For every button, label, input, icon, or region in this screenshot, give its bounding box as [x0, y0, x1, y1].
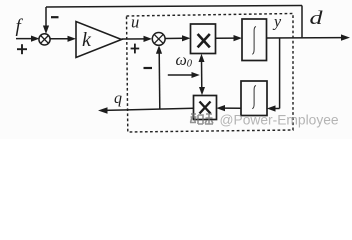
- dashed boundary box: [127, 14, 294, 133]
- svg-text:u: u: [131, 13, 139, 32]
- wire: S1 to gain triangle: [50, 36, 76, 42]
- svg-text:k: k: [82, 29, 92, 51]
- wire: I2 to multiplier M2: [216, 105, 241, 111]
- svg-text:d: d: [310, 8, 324, 29]
- feedback wire: node y up and across to S1: [43, 6, 302, 38]
- feedback wire: q line up to S2: [156, 45, 162, 108]
- summing junction S1: [39, 34, 50, 45]
- wire: node y down to integrator I2: [267, 38, 280, 112]
- label + (S2 input): [131, 44, 140, 54]
- wire: M1 to integrator I1: [216, 35, 243, 41]
- svg-text:q: q: [114, 90, 122, 107]
- integrator I2: [241, 81, 267, 116]
- summing junction S2: [152, 33, 165, 46]
- label + (S1 input): [17, 44, 27, 54]
- wire: I1 to output d (node y): [267, 34, 351, 40]
- wire: input f to summing junction S1: [16, 36, 40, 42]
- multiplier M2: [194, 96, 217, 120]
- wire: omega0 vertical to M1 and M2: [199, 54, 206, 96]
- omega0 source arrow: [168, 72, 200, 78]
- label - (S1 feedback): [51, 16, 59, 18]
- integrator I1: [242, 19, 267, 61]
- label - (S2 feedback): [144, 67, 153, 69]
- wire: triangle to summing junction S2: [122, 36, 153, 42]
- wire: S2 to multiplier M1: [165, 35, 190, 41]
- svg-text:f: f: [16, 16, 24, 37]
- wire: M2 output to q: [98, 107, 194, 114]
- gain amplifier k: [76, 22, 122, 58]
- svg-text:y: y: [272, 13, 282, 30]
- multiplier M1: [191, 24, 216, 54]
- svg-text:@Power-Employee: @Power-Employee: [220, 113, 339, 128]
- watermark: [190, 113, 339, 128]
- svg-text:ω0: ω0: [176, 52, 193, 69]
